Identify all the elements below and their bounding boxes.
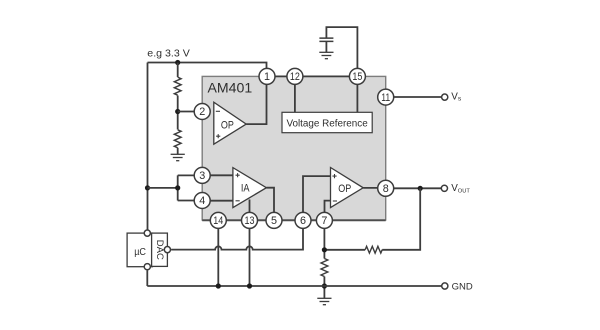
svg-text:2: 2 [199,106,205,118]
node junction divider mid [175,109,180,114]
pin 3 [194,167,210,183]
wire pin 13 down to gnd rail [249,220,251,286]
plus sign OP2 [332,174,336,178]
pin 15 [349,68,365,84]
wire feedback to pin 7 node [324,249,365,251]
wire top edge pins 1-12-15 [267,75,357,77]
svg-text:µC: µC [134,247,146,258]
wire OP2 output to pin 8 [363,187,386,189]
minus sign IA [236,200,240,202]
wire bottom edge of IC [202,219,386,221]
wire IA output to pin 5 [266,188,274,220]
plus sign OP1 [216,134,220,138]
resistor feedback [365,246,382,253]
wire divider top lead [177,63,179,78]
svg-text:11: 11 [381,92,390,104]
wire pin 8 to Vout terminal [386,187,445,189]
node junction pin13/gnd [247,283,252,288]
pin 4 [194,193,210,209]
svg-text:GND: GND [452,282,473,293]
capacitor C1 [319,38,333,41]
svg-text:OP: OP [338,183,351,195]
wire pin 7 to OP2 minus input [325,201,331,220]
wire capacitor to ground [325,41,327,52]
op-amp OP1 (buffer, top left) [214,102,246,144]
svg-text:DAC: DAC [154,240,165,260]
node junction at divider top [175,60,180,65]
terminal Vs [442,94,448,100]
wire left vertical rail [147,63,149,234]
pin 6 [295,212,311,228]
resistor to ground [321,259,328,277]
svg-text:1: 1 [264,71,270,83]
svg-text:AM401: AM401 [208,80,253,96]
pin 5 [266,212,282,228]
svg-text:IA: IA [241,183,250,195]
resistor divider upper [174,77,181,95]
ground capacitor [319,52,333,58]
node junction pin7/feedback [322,247,327,252]
pin 8 [378,180,394,196]
wire pin 12 to vref [294,76,296,112]
minus sign OP1 [216,110,220,112]
svg-text:15: 15 [352,71,362,83]
svg-text:14: 14 [213,215,223,227]
microcontroller box [127,233,152,267]
svg-text:5: 5 [271,215,277,227]
terminal Vout [441,185,447,191]
pin numbers [199,71,390,227]
wire uC bottom to gnd rail [146,270,148,286]
pin 7 [316,212,332,228]
wire pin 6 to OP2 plus input [303,176,331,220]
wire pin 11 to Vs terminal [386,96,445,98]
wire DAC to pin 6 with hops [171,223,303,250]
wire OP1 output to pin 1 [246,84,266,124]
wire divider middle [177,96,179,130]
wire gnd rail [147,285,445,287]
pin 11 [378,89,394,105]
svg-text:4: 4 [199,195,205,207]
node junction left rail to pins 3/4 [145,185,150,190]
terminal DAC out [164,247,170,253]
pin 13 [242,212,258,228]
pin circles [194,68,394,228]
op-amp OP2 (output, right) [331,168,364,208]
pin 12 [287,68,303,84]
wire resistor to gnd rail [323,277,325,299]
node junction gnd rail [322,283,327,288]
pin 2 [194,104,210,120]
wire supply rail 3.3V horizontal [148,63,267,77]
node junction feedback [418,186,423,191]
plus sign IA [236,173,240,177]
wire pin 13 to IA [249,200,251,221]
svg-text:OP: OP [221,119,234,131]
instrumentation amp IA [233,168,267,208]
node junction pin14/gnd [216,283,221,288]
terminal uC bottom [144,264,150,270]
svg-text:Voltage Reference: Voltage Reference [286,118,368,129]
wire IA input pin 3 [202,174,233,176]
svg-text:6: 6 [300,215,306,227]
wire pin 7 down [323,220,325,259]
wire branch to pins 3 and 4 [148,175,203,200]
resistor divider lower [174,130,181,148]
wire divider bottom lead [177,148,179,155]
node junction at branch [175,185,180,190]
wire pin 15 to vref [356,76,358,112]
pin 1 [259,68,275,84]
wire pin 14 down to gnd rail [217,220,219,286]
terminal uC top [144,230,150,236]
svg-text:8: 8 [383,183,389,195]
wire IA input pin 4 [202,200,233,202]
svg-text:s: s [458,96,462,103]
svg-text:3: 3 [199,170,205,182]
DAC box [152,233,168,266]
wire to pin 2 [178,111,202,113]
svg-text:7: 7 [321,215,327,227]
wire feedback down [382,188,420,250]
AM401 IC body [202,76,386,220]
wire pin 15 up to capacitor [326,27,357,76]
svg-text:e.g 3.3 V: e.g 3.3 V [147,49,190,60]
ground symbol gnd rail [317,298,331,304]
terminal GND [442,283,448,289]
minus sign OP2 [333,200,337,202]
svg-text:12: 12 [290,71,300,83]
ground divider [171,154,185,160]
svg-text:OUT: OUT [458,189,471,195]
svg-text:13: 13 [245,215,255,227]
pin 14 [210,212,226,228]
voltage reference box [282,112,372,132]
